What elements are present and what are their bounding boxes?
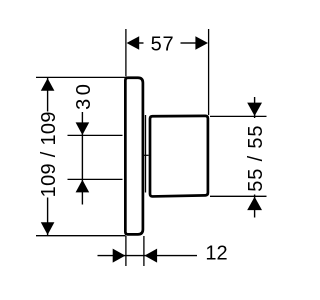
dim 12: left arrow pointing right: [113, 249, 126, 263]
dim 109/109: down arrow: [41, 222, 55, 235]
dim 30: top extension line: [68, 134, 123, 136]
dim 55/55: up arrow below span: [247, 197, 262, 210]
dim 30: down arrow above span: [76, 122, 90, 135]
escutcheon plate (side view, thick outline): [125, 78, 143, 235]
dim 30: up arrow below span: [76, 180, 90, 193]
svg-text:12: 12: [205, 242, 227, 264]
dim 109/109: dimension line lower segment: [47, 198, 49, 236]
dim 55/55: top extension line: [210, 115, 267, 117]
svg-text:55 / 55: 55 / 55: [245, 125, 267, 192]
dim 55/55: bottom extension line: [210, 195, 267, 197]
axis tick between plate and knob: [144, 154, 149, 156]
dim 57: right tail line: [181, 42, 197, 44]
svg-text:30: 30: [73, 81, 95, 110]
dim 55/55: dimension line upper tail: [254, 97, 256, 118]
dim 12: right arrow pointing left: [145, 249, 158, 263]
dim 57: left arrow: [127, 36, 140, 50]
dim 55/55: down arrow above span: [247, 103, 262, 116]
dim 109/109: dimension line upper segment: [47, 78, 49, 112]
dim 109/109: top extension line: [36, 76, 126, 78]
dim 109/109: up arrow: [41, 78, 55, 91]
dim 57: left arrow stub: [139, 42, 144, 44]
dim 55/55: dimension line lower tail: [254, 195, 256, 218]
dim 57: right arrow: [195, 36, 208, 50]
dim 12: left extension line: [125, 236, 127, 266]
dim 12: dimension line with tails: [98, 255, 198, 257]
dim 57: right extension line: [208, 29, 210, 115]
svg-text:109 / 109: 109 / 109: [38, 111, 60, 197]
dim 30: bottom extension line: [68, 178, 123, 180]
dim 109/109: bottom extension line: [36, 235, 126, 237]
sleeve edge line behind knob: [145, 115, 147, 193]
svg-text:57: 57: [151, 34, 175, 56]
knob (side view, thick outline, slight taper): [150, 116, 208, 197]
dim 30: dimension line: [81, 112, 83, 205]
dim 12: right extension line: [143, 236, 145, 266]
dim 57: left extension line: [125, 29, 127, 76]
